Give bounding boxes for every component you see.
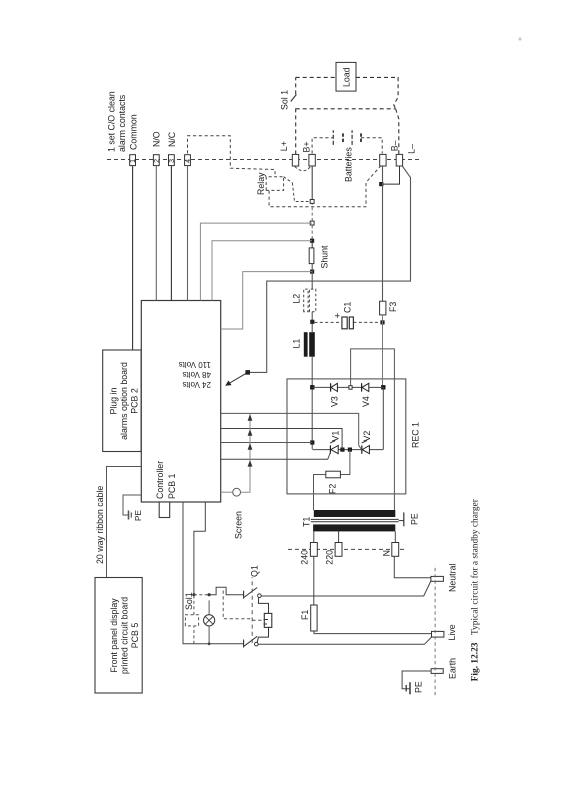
shunt [309,245,329,269]
terminal L- [396,144,416,166]
wire V3V4 rail [312,386,383,388]
svg-text:240: 240 [300,550,310,565]
svg-text:N/C: N/C [167,131,177,147]
svg-text:Batteries: Batteries [344,147,354,182]
svg-text:V3: V3 [330,396,340,407]
svg-text:Front panel display: Front panel display [109,598,119,673]
PCB1 controller board [141,301,220,503]
node junction dot at C1 tap positive [310,320,314,324]
relay contact and coil [256,167,311,202]
wire negative link row to rail [382,387,384,449]
wire positive rail B+ to connector [311,166,313,199]
node terminal strip dashed line [107,159,420,161]
wire terminal1 to PCB2 [132,166,134,350]
svg-text:L+: L+ [279,141,289,151]
thyristor V1 [330,431,341,454]
terminal B+ [302,141,316,166]
scan smudge [518,37,521,40]
wire L2 to L1 [311,312,313,333]
node tap strip dashed line [288,548,405,550]
svg-text:220: 220 [325,550,335,565]
wire 20 way ribbon cable [95,467,141,578]
wire Q1 coil lower [257,627,268,642]
screen circle [233,488,241,496]
terminal tap 240 [300,543,318,565]
wire dashed contact interlock [223,591,251,619]
contactor Q1 coil [264,613,272,627]
wire negative rail B- to F3 [382,166,384,301]
contactor Q1 upper contact [244,565,262,599]
PCB1 volts selector labels [179,360,211,389]
inductor L2 dashed [292,289,316,312]
svg-text:Screen: Screen [234,511,244,539]
inductor L1 [292,332,315,357]
node junction dot right of shunt [310,239,314,243]
wire N tap to Neutral [394,556,431,578]
svg-text:Neutral: Neutral [448,564,458,592]
svg-text:Fig. 12.23: Fig. 12.23 [471,642,481,681]
wire tap 220 [338,531,340,542]
fuse F2 and wiring [314,450,350,510]
wire gate line g2 [221,429,342,450]
wire dashed load loop inner [296,108,396,110]
wire F3 to REC1 negative rail [382,315,384,388]
svg-text:F3: F3 [388,302,398,312]
PE earth symbol at PCB1 [123,495,143,521]
svg-text:PCB 1: PCB 1 [167,473,177,499]
terminal tap N [382,543,399,557]
svg-text:1: 1 [130,159,137,163]
svg-text:L–: L– [407,144,417,154]
svg-text:printed circuit board: printed circuit board [120,597,130,674]
wire terminal4 to PCB1 [187,166,189,301]
capacitor C1 dashed electrolytic [314,302,380,329]
svg-text:B–: B– [390,140,400,151]
svg-text:4: 4 [185,159,192,163]
wire screen stub [221,491,233,493]
terminal 1 Common [129,114,139,165]
wire relay sense upper to PCB1 [200,223,312,300]
terminal Earth [431,658,457,679]
svg-text:110 Volts: 110 Volts [179,360,211,369]
PCB5 front panel display board [95,578,142,694]
svg-text:V1: V1 [331,431,341,442]
svg-text:Sol1: Sol1 [184,592,194,610]
svg-text:N/O: N/O [152,131,162,147]
node dot sol1 branch [192,593,195,596]
terminal 4 [185,155,193,166]
terminal Live [432,624,458,640]
svg-text:Load: Load [342,67,352,87]
wire dashed connector to dot [311,225,313,239]
fuse F3 [380,301,398,315]
node square dot rail top (positive) [310,385,314,389]
node junction dot B- link [379,182,383,186]
wire relay sense lower to PCB1 [212,241,312,301]
node open square connector lower [310,221,314,225]
wire Q1 coil upper [258,598,268,614]
wire shunt to L2 [311,264,313,290]
wire gate line g1 to V2 [221,413,361,448]
svg-text:Live: Live [447,624,457,640]
thyristor V2 [362,431,372,454]
wire Q1 to Neutral [260,581,431,596]
svg-text:PCB 5: PCB 5 [130,623,140,649]
transformer T1 primary winding [313,524,395,531]
node square AC tap [349,386,352,390]
wire gate line g4 to V1 [221,452,331,459]
node square dot rail bottom (negative) [381,385,385,389]
wire L1 to REC1 positive rail [311,357,313,449]
solenoid Sol1 coil dashed [184,592,199,644]
wire tap N [394,531,396,542]
node mains boundary dashed [434,565,436,695]
wire AC tap riser to T1 [351,349,395,510]
wire terminal3 to PCB1 [170,166,172,301]
svg-text:V2: V2 [362,431,372,442]
wire V1V2 row [312,449,383,451]
wire screen line with arrows [234,414,253,539]
svg-text:PE: PE [410,513,420,525]
svg-text:2: 2 [154,159,161,163]
svg-text:F1: F1 [300,610,310,620]
svg-text:PE: PE [414,681,424,693]
svg-text:Common: Common [129,114,139,150]
wire 240 tap to F1 [313,556,315,605]
wire lamp node to Q1 contact with hop [209,587,243,594]
svg-text:1 set C/O clean: 1 set C/O clean [107,91,117,152]
transformer T1 secondary winding [314,510,396,517]
svg-text:24 Volts: 24 Volts [183,380,211,389]
label alarm contacts heading [107,91,128,152]
svg-text:PCB 2: PCB 2 [130,388,140,414]
svg-text:Earth: Earth [448,658,458,679]
svg-text:V4: V4 [361,396,371,407]
svg-text:PE: PE [134,510,143,521]
terminal tap 220 [325,543,343,565]
wire dot to shunt [311,241,313,248]
terminal 2 N/O [152,131,162,165]
node junction dot left of shunt [310,270,314,274]
svg-text:C1: C1 [343,302,353,313]
wire B- to L- link [381,166,399,184]
svg-text:F2: F2 [328,484,338,494]
contactor Q1 linkage dashed [252,577,264,643]
svg-text:48 Volts: 48 Volts [183,370,211,379]
svg-text:Q1: Q1 [250,565,260,577]
svg-text:L2: L2 [292,294,302,304]
contactor Q1 lower contact [244,636,258,647]
wire dashed load positive top [296,76,336,78]
Load box [336,62,356,91]
wire F1 to Live [314,631,432,634]
node square dot F2 tap [348,448,352,452]
node square dot gate g3 [310,440,314,444]
terminal Neutral [431,564,458,592]
svg-text:Relay: Relay [256,172,266,195]
wire selector L- to volts arrow [225,166,410,386]
node open square connector upper [310,200,314,204]
caption figure title [470,498,481,681]
svg-text:Sol 1: Sol 1 [280,90,290,110]
REC1 rectifier box [287,379,421,494]
wire Q1 lower to Live [258,637,432,644]
lamp indicator [194,595,215,646]
earth PE at T1 core [399,512,420,526]
wire dashed terminal4 to relay contact [188,136,276,176]
node square dot V1 cathode [340,448,344,452]
svg-text:Typical circuit for a standby: Typical circuit for a standby charger [470,498,481,635]
svg-text:3: 3 [169,159,176,163]
wire tap 240 [313,531,315,542]
earth PE symbol at mains [402,671,431,694]
svg-text:alarm contacts: alarm contacts [117,94,127,152]
svg-text:Plug in: Plug in [109,387,119,414]
svg-text:N: N [382,550,392,556]
svg-text:L1: L1 [292,339,302,349]
svg-text:Shunt: Shunt [320,245,330,269]
terminal L+ [279,141,299,166]
svg-text:alarms option board: alarms option board [119,362,129,440]
svg-text:T1: T1 [302,517,312,527]
wire gate line g3 [221,442,313,444]
terminal B- [380,140,400,166]
wire PCB1 to lamp branch [194,502,205,595]
diode V3 [330,383,340,407]
terminal 3 N/C [167,131,177,165]
svg-text:Controller: Controller [155,461,165,499]
wire dashed connector to connector [311,203,313,221]
transformer T1 core [311,519,399,521]
svg-text:20 way ribbon cable: 20 way ribbon cable [95,486,105,564]
PCB1 connector tab [159,502,170,518]
fuse F1 [300,605,317,631]
svg-text:REC 1: REC 1 [411,422,421,448]
wire PCB1 left to Q1 lower contact [183,502,244,644]
wire terminal2 to PCB1 [155,166,157,301]
diode V4 [361,383,371,407]
wire dashed load negative side [356,77,399,154]
batteries dashed symbol [312,130,382,182]
wire dashed L+ riser with Sol1 contact [280,77,297,154]
wire dashed relay coil to B- [269,166,380,207]
PCB2 plug in alarms option board [103,350,141,452]
wire sense shunt to PCB1 [221,272,312,329]
svg-text:B+: B+ [302,141,312,152]
node dot lamp branch [208,593,211,596]
node junction dot C1 negative [380,320,384,324]
